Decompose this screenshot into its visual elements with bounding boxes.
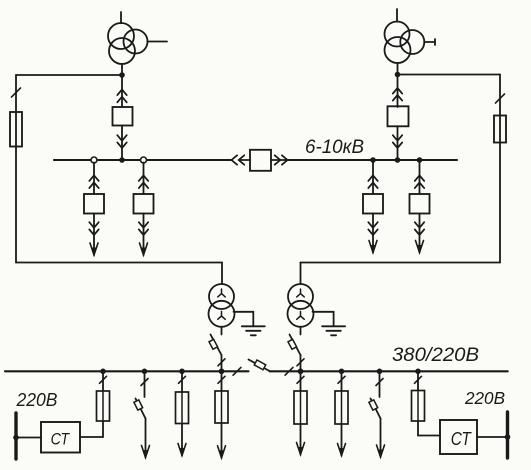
ground lead T3 (234, 311, 254, 313)
wire CT-right horizontal (418, 435, 440, 437)
wire T2 bay (397, 75, 399, 108)
switch-fuse blade T3 (211, 335, 222, 356)
wire feeder lower x=143.5 (143, 214, 145, 256)
tick LV switch feeder x=144.5 (141, 379, 148, 386)
node LV feeder x=300.5 (298, 369, 304, 375)
node LV feeder x=341.5 (339, 369, 345, 375)
node at T1 drop (119, 72, 125, 78)
circuit breaker Q2 (388, 106, 409, 126)
wire LV feeder x=341.5 (341, 371, 343, 455)
drawout contact upper feeder x=143.5 (139, 175, 148, 181)
wire feeder upper x=373 (372, 163, 374, 195)
wire T1 bay (121, 75, 123, 107)
knife switch blade x=379.5 (371, 399, 381, 419)
switch tick T4 drop (297, 359, 304, 366)
svg-text:380/220В: 380/220В (392, 344, 479, 366)
node at T2 drop (395, 72, 401, 78)
wire CT-right to bar (477, 436, 508, 438)
terminal bar left (14, 413, 17, 459)
node T2-busbar (395, 157, 401, 163)
circuit breaker Q1 (113, 107, 133, 126)
wire feeder lower x=373 (372, 214, 374, 253)
tick LV feeder x=341.5 (338, 376, 345, 383)
drawout contact (upper) T2 bay (393, 88, 402, 94)
arrow LV switch feeder x=144.5 (142, 446, 150, 458)
wire from T1 to left riser (16, 74, 122, 76)
wire below T4 (300, 327, 302, 335)
CT box right (440, 420, 477, 454)
busbar 380/220V right section (270, 370, 508, 372)
busbar 380/220V left section (5, 370, 249, 372)
wire CT-left to bar (16, 437, 41, 439)
wire feeder upper x=419.5 (419, 163, 421, 195)
drawout contact lower feeder x=373 (368, 222, 377, 228)
arrow LV feeder x=221.5 (218, 446, 226, 458)
wire drop to T3 (221, 263, 223, 285)
node CT-left branch (100, 369, 106, 375)
wire LV feeder x=221.5 (221, 371, 223, 458)
wire T4 to LV busbar (300, 355, 302, 371)
outgoing feeder arrow x=373 (369, 241, 377, 253)
wire bottom-right run (301, 262, 501, 264)
ground T3 (242, 325, 265, 327)
arrow LV feeder x=341.5 (338, 444, 346, 456)
bus coupler breaker Q3 (250, 150, 271, 171)
wire below T3 (221, 327, 223, 335)
drawout contact (lower) T1 bay (117, 135, 126, 141)
wire LV feeder x=182 (181, 371, 183, 455)
node CT-right branch (415, 369, 421, 375)
fuse CT-right (412, 391, 425, 422)
fuse LV feeder x=182 (176, 392, 189, 424)
node T4-LV busbar (298, 369, 304, 375)
svg-text:220В: 220В (16, 389, 58, 410)
svg-text:СТ: СТ (451, 429, 473, 449)
tick CT-left (100, 376, 107, 383)
wire CT-left riser (102, 371, 104, 437)
transformer T4 (6-10/0.4 kV) (288, 284, 314, 327)
wire T1 bay lower (121, 126, 123, 161)
switch-fuse blade T4 (290, 335, 301, 356)
tick LV switch feeder x=379.5 (376, 379, 383, 386)
wire right riser (499, 75, 501, 263)
transformer T1 (three-winding, top-left) (108, 12, 167, 75)
wire upper LV switch feeder x=379.5 (379, 371, 381, 397)
fuse LV feeder x=300.5 (294, 391, 307, 424)
outgoing feeder arrow x=94 (90, 243, 98, 255)
node LV feeder x=182 (179, 369, 185, 375)
tick LV feeder x=300.5 (297, 376, 304, 383)
node feeder x=373 (370, 157, 376, 163)
wire drop to T4 (300, 263, 302, 285)
circuit breaker feeder x=373 (363, 194, 383, 214)
wire feeder lower x=94 (93, 214, 95, 256)
terminal bar right (506, 412, 509, 458)
switch tick T3 drop (218, 359, 225, 366)
arrow LV feeder x=300.5 (297, 443, 305, 455)
node CT-left bar (13, 435, 19, 441)
drawout contact (lower) T2 bay (393, 135, 402, 141)
transformer T2 (three-winding, top-right) (385, 9, 436, 75)
wire upper LV switch feeder x=144.5 (144, 371, 146, 397)
arrow LV feeder x=182 (178, 444, 186, 456)
node T1-busbar (119, 157, 125, 163)
wire CT-left horizontal (80, 436, 103, 438)
circuit breaker feeder x=419.5 (410, 194, 430, 214)
svg-text:СТ: СТ (51, 429, 71, 448)
fuse F2 (right riser) (494, 116, 506, 143)
tick LV feeder x=221.5 (218, 376, 225, 383)
wire left riser (15, 75, 17, 263)
wire coupler right (271, 159, 288, 161)
wire from T2 to right riser (398, 74, 501, 76)
wire lower LV switch feeder x=144.5 (145, 419, 147, 458)
fuse LV feeder x=221.5 (215, 391, 228, 423)
bus tie tick right (285, 367, 293, 375)
outgoing feeder arrow x=143.5 (140, 243, 148, 255)
svg-text:220В: 220В (464, 388, 505, 408)
circuit breaker feeder x=94 (84, 194, 104, 214)
node T3-LV busbar (219, 369, 225, 375)
switch tick on right riser (495, 94, 504, 103)
node CT-right bar (505, 434, 511, 440)
fuse LV feeder x=341.5 (335, 391, 348, 424)
wire feeder lower x=419.5 (419, 214, 421, 253)
wire T2 bay lower (397, 126, 399, 160)
knife switch blade x=144.5 (136, 399, 146, 419)
wire feeder upper x=94 (93, 163, 95, 195)
wire CT-right riser (417, 371, 419, 435)
wire lower LV switch feeder x=379.5 (380, 419, 382, 458)
circuit breaker feeder x=143.5 (134, 194, 154, 214)
ground T4 (322, 325, 345, 327)
wire bottom-left run (16, 262, 222, 264)
node LV feeder x=221.5 (219, 369, 225, 375)
wire LV feeder x=300.5 (300, 371, 302, 454)
drawout contact upper feeder x=94 (89, 175, 98, 181)
node feeder x=143.5 (141, 157, 147, 163)
ground lead T4 (313, 311, 334, 313)
svg-text:6-10кВ: 6-10кВ (305, 137, 364, 158)
arrow LV switch feeder x=379.5 (377, 445, 385, 457)
fuse F1 (left riser) (10, 112, 22, 147)
transformer T3 (6-10/0.4 kV) (209, 284, 235, 327)
drawout contact lower feeder x=419.5 (415, 222, 424, 228)
bus tie blade with fuse (249, 360, 270, 372)
tick LV feeder x=182 (179, 376, 186, 383)
outgoing feeder arrow x=419.5 (416, 241, 424, 253)
CT box left (41, 422, 80, 453)
node LV switch feeder x=144.5 (142, 369, 148, 375)
bus tie tick left (233, 367, 241, 375)
busbar 6-10kV right section (288, 159, 457, 161)
fuse CT-left (97, 391, 110, 421)
drawout contact left of coupler (232, 155, 238, 164)
wire coupler left (240, 159, 250, 161)
node feeder x=94 (91, 157, 97, 163)
tick CT-right (415, 376, 422, 383)
wire T3 to LV busbar (221, 355, 223, 371)
node feeder x=419.5 (417, 157, 423, 163)
switch tick on left riser (11, 88, 20, 97)
drawout contact lower feeder x=143.5 (139, 222, 148, 228)
busbar 6-10kV left section (54, 159, 231, 161)
drawout contact (upper) T1 bay (117, 90, 126, 96)
drawout contact right of coupler (282, 155, 288, 164)
drawout contact upper feeder x=373 (368, 175, 377, 181)
drawout contact lower feeder x=94 (89, 222, 98, 228)
wire feeder upper x=143.5 (143, 163, 145, 195)
node LV switch feeder x=379.5 (377, 369, 383, 375)
drawout contact upper feeder x=419.5 (415, 175, 424, 181)
